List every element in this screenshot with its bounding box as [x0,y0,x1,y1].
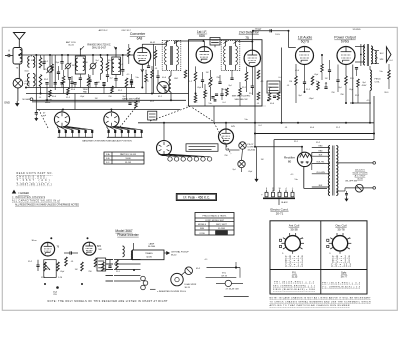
svg-text:.1: .1 [292,188,294,190]
svg-text:6D6: 6D6 [199,34,205,38]
svg-text:PART NO. 50-169: PART NO. 50-169 [120,153,137,156]
svg-text:SEC (GREEN-BROWN) = 1.1: SEC (GREEN-BROWN) = 1.1 [273,285,316,287]
svg-text:ANT COIL: ANT COIL [66,41,77,44]
svg-text:SEE BELOW: SEE BELOW [235,99,249,101]
svg-text:RED: RED [319,151,324,153]
svg-text:8µf: 8µf [229,85,232,87]
svg-text:PRI (BLUE-RED) = 0.4: PRI (BLUE-RED) = 0.4 [322,283,361,285]
svg-text:BANDSWITCH SHOWN IN BROADCAST: BANDSWITCH SHOWN IN BROADCAST POSITION [82,140,132,143]
svg-text:35-38: 35-38 [290,227,298,231]
svg-text:250µµf: 250µµf [255,29,262,31]
svg-text:3135: 3135 [292,274,298,278]
svg-text:P.U.: P.U. [292,271,297,275]
svg-text:51-5: 51-5 [275,34,280,36]
svg-text:S.C.: S.C. [106,162,110,164]
svg-text:= GANGED: = GANGED [18,192,29,195]
svg-text:20-71: 20-71 [276,211,284,215]
svg-text:I.F. Peak - 456 K.C.: I.F. Peak - 456 K.C. [183,196,210,200]
svg-text:1M: 1M [95,98,98,100]
svg-text:450V: 450V [362,85,367,87]
svg-text:µµf: µµf [43,115,46,117]
svg-text:A.C. ONLY: A.C. ONLY [355,175,366,178]
svg-text:1M: 1M [75,269,78,271]
svg-text:6Q7G: 6Q7G [301,39,310,43]
svg-text:B-C = 3.5: B-C = 3.5 [332,259,351,263]
svg-text:TO CHECK CHASSIS SERIAL NUMBER: TO CHECK CHASSIS SERIAL NUMBERS AND USE … [270,300,371,303]
svg-text:CRYSTAL PICKUP: CRYSTAL PICKUP [171,251,189,254]
svg-text:1M: 1M [325,78,328,80]
svg-text:S.A.: S.A. [106,153,110,156]
svg-text:C-D = 12.3: C-D = 12.3 [331,263,352,267]
svg-text:35-1305: 35-1305 [218,228,225,230]
svg-text:NOTE: THE ONLY MODELS OF THIS: NOTE: THE ONLY MODELS OF THIS RECEIVER A… [48,300,169,303]
svg-text:41-55: 41-55 [357,179,363,181]
svg-text:4: 4 [285,188,286,190]
svg-text:10: 10 [278,188,280,190]
svg-text:CORP. MODEL 3667: CORP. MODEL 3667 [205,220,225,222]
svg-text:8µf: 8µf [363,82,366,84]
svg-text:OSC: OSC [174,78,179,80]
svg-text:B-C = 4.3: B-C = 4.3 [285,259,304,263]
svg-text:S.B.: S.B. [106,158,110,160]
svg-text:35-78: 35-78 [337,227,345,231]
svg-text:36-77: 36-77 [341,274,348,278]
svg-text:1st I.F.: 1st I.F. [197,30,207,34]
svg-text:DIAL 53-2417: DIAL 53-2417 [92,47,107,50]
svg-text:RUN: RUN [200,228,205,230]
svg-text:1M: 1M [261,159,264,161]
svg-text:1M: 1M [206,72,209,74]
svg-text:8µf: 8µf [103,269,106,271]
svg-text:6A8: 6A8 [137,37,143,41]
svg-text:GND: GND [4,101,10,105]
svg-text:CODE: CODE [199,233,205,235]
svg-text:15: 15 [272,188,274,190]
svg-text:3667 | 3667T: 3667 | 3667T [216,224,228,226]
svg-text:C-D = 1.6: C-D = 1.6 [285,263,304,267]
svg-text:80: 80 [288,159,292,163]
svg-text:36-2: 36-2 [380,53,384,55]
svg-text:.05µf: .05µf [80,96,85,98]
svg-text:32-85: 32-85 [146,256,152,258]
svg-text:= INSERTED IN SPKR PLUG: = INSERTED IN SPKR PLUG [157,291,186,293]
svg-text:8µf: 8µf [233,169,236,171]
svg-text:.05µf: .05µf [314,74,319,76]
svg-text:47 33-49 .5M: 47 33-49 .5M [226,289,239,291]
svg-text:8µf: 8µf [299,95,302,97]
svg-text:50-60 CYCLES: 50-60 CYCLES [353,172,368,174]
svg-text:MODELS: MODELS [198,224,207,226]
svg-text:34-2064: 34-2064 [248,149,256,151]
svg-text:1M: 1M [289,81,292,83]
svg-text:OSC 32-7: OSC 32-7 [121,30,131,32]
svg-text:ANT 31-2: ANT 31-2 [99,29,109,32]
svg-text:BLACK: BLACK [281,201,288,204]
svg-text:Converter: Converter [130,32,146,36]
svg-text:8µf: 8µf [339,87,342,89]
svg-text:8µf: 8µf [123,96,126,98]
svg-text:CH 33: CH 33 [221,275,228,277]
svg-text:V.C. (GREEN-BLACK) = 2.3: V.C. (GREEN-BLACK) = 2.3 [322,285,361,288]
svg-text:COIL: COIL [375,82,381,84]
svg-text:8: 8 [266,188,267,190]
svg-text:TRANS: TRANS [145,252,153,255]
svg-text:A-B = 4.8: A-B = 4.8 [285,255,304,259]
svg-text:Spkr.: Spkr. [341,271,347,275]
svg-text:NOTE: IN CASE CHASSIS IS NOT A: NOTE: IN CASE CHASSIS IS NOT AS LISTED A… [270,297,372,300]
svg-text:36-13: 36-13 [185,287,191,289]
svg-text:RANGE 540-1720 KC: RANGE 540-1720 KC [87,43,111,46]
svg-text:.05µf: .05µf [55,62,60,64]
svg-text:READ UNITS PART NO.: READ UNITS PART NO. [17,172,53,175]
svg-text:53-143: 53-143 [125,162,132,164]
svg-text:.05µf: .05µf [197,87,202,89]
svg-text:ALL CAPACITANCE VALUES IN µf: ALL CAPACITANCE VALUES IN µf [12,200,60,203]
svg-text:53-86: 53-86 [125,158,131,160]
svg-text:BASE: BASE [45,101,51,104]
svg-text:PAD: PAD [83,90,88,93]
svg-text:34-2064: 34-2064 [148,246,156,248]
svg-text:CHASSIS NOS.: CHASSIS NOS. [17,176,47,179]
svg-text:1M: 1M [72,65,75,67]
svg-text:YEL-GRN: YEL-GRN [316,172,325,174]
svg-text:PHILCO RADIO & TELEV.: PHILCO RADIO & TELEV. [202,214,226,217]
svg-text:BLK-YEL: BLK-YEL [317,162,325,164]
svg-text:FIELD (BLACK-BLACK) = 1060: FIELD (BLACK-BLACK) = 1060 [273,288,316,291]
svg-text:LIGHT: LIGHT [248,147,255,149]
svg-text:FIELD: FIELD [375,79,382,81]
svg-text:.05µf: .05µf [248,171,253,173]
svg-text:ALL RESISTANCES IN OHMS UNLESS: ALL RESISTANCES IN OHMS UNLESS OTHERWISE… [15,203,79,206]
svg-text:31-15: 31-15 [68,45,74,47]
svg-text:.05µf: .05µf [60,271,65,273]
svg-text:ON-OFF SW: ON-OFF SW [345,181,357,183]
svg-text:32-8245: 32-8245 [352,29,361,31]
svg-text:2nd Detector: 2nd Detector [239,31,260,35]
svg-text:APPLIES TO THAT PARTICULAR CHA: APPLIES TO THAT PARTICULAR CHASSIS RUN N… [270,304,350,307]
svg-text:DUAL SPKR: DUAL SPKR [185,283,197,286]
svg-text:= INDICATES CHASSIS: = INDICATES CHASSIS [12,196,45,199]
svg-text:38-10: 38-10 [171,255,177,257]
svg-text:PRI (BLUE-RED) = 2.2: PRI (BLUE-RED) = 2.2 [274,282,315,284]
svg-text:SEE NOTE (LEFT): SEE NOTE (LEFT) [232,96,251,98]
svg-text:RED: RED [319,146,324,148]
svg-text:.05µf: .05µf [309,98,314,100]
svg-text:115-125 V.: 115-125 V. [355,169,366,171]
svg-text:8µf: 8µf [96,60,99,62]
svg-text:T-3667-DC (115 V.): T-3667-DC (115 V.) [17,184,52,186]
svg-text:PILOT: PILOT [248,144,255,146]
svg-text:A-B = 2.8: A-B = 2.8 [332,255,351,259]
svg-text:6V6G: 6V6G [341,39,350,43]
svg-text:46-42: 46-42 [150,42,156,44]
svg-text:Phase Inverter: Phase Inverter [117,233,139,237]
